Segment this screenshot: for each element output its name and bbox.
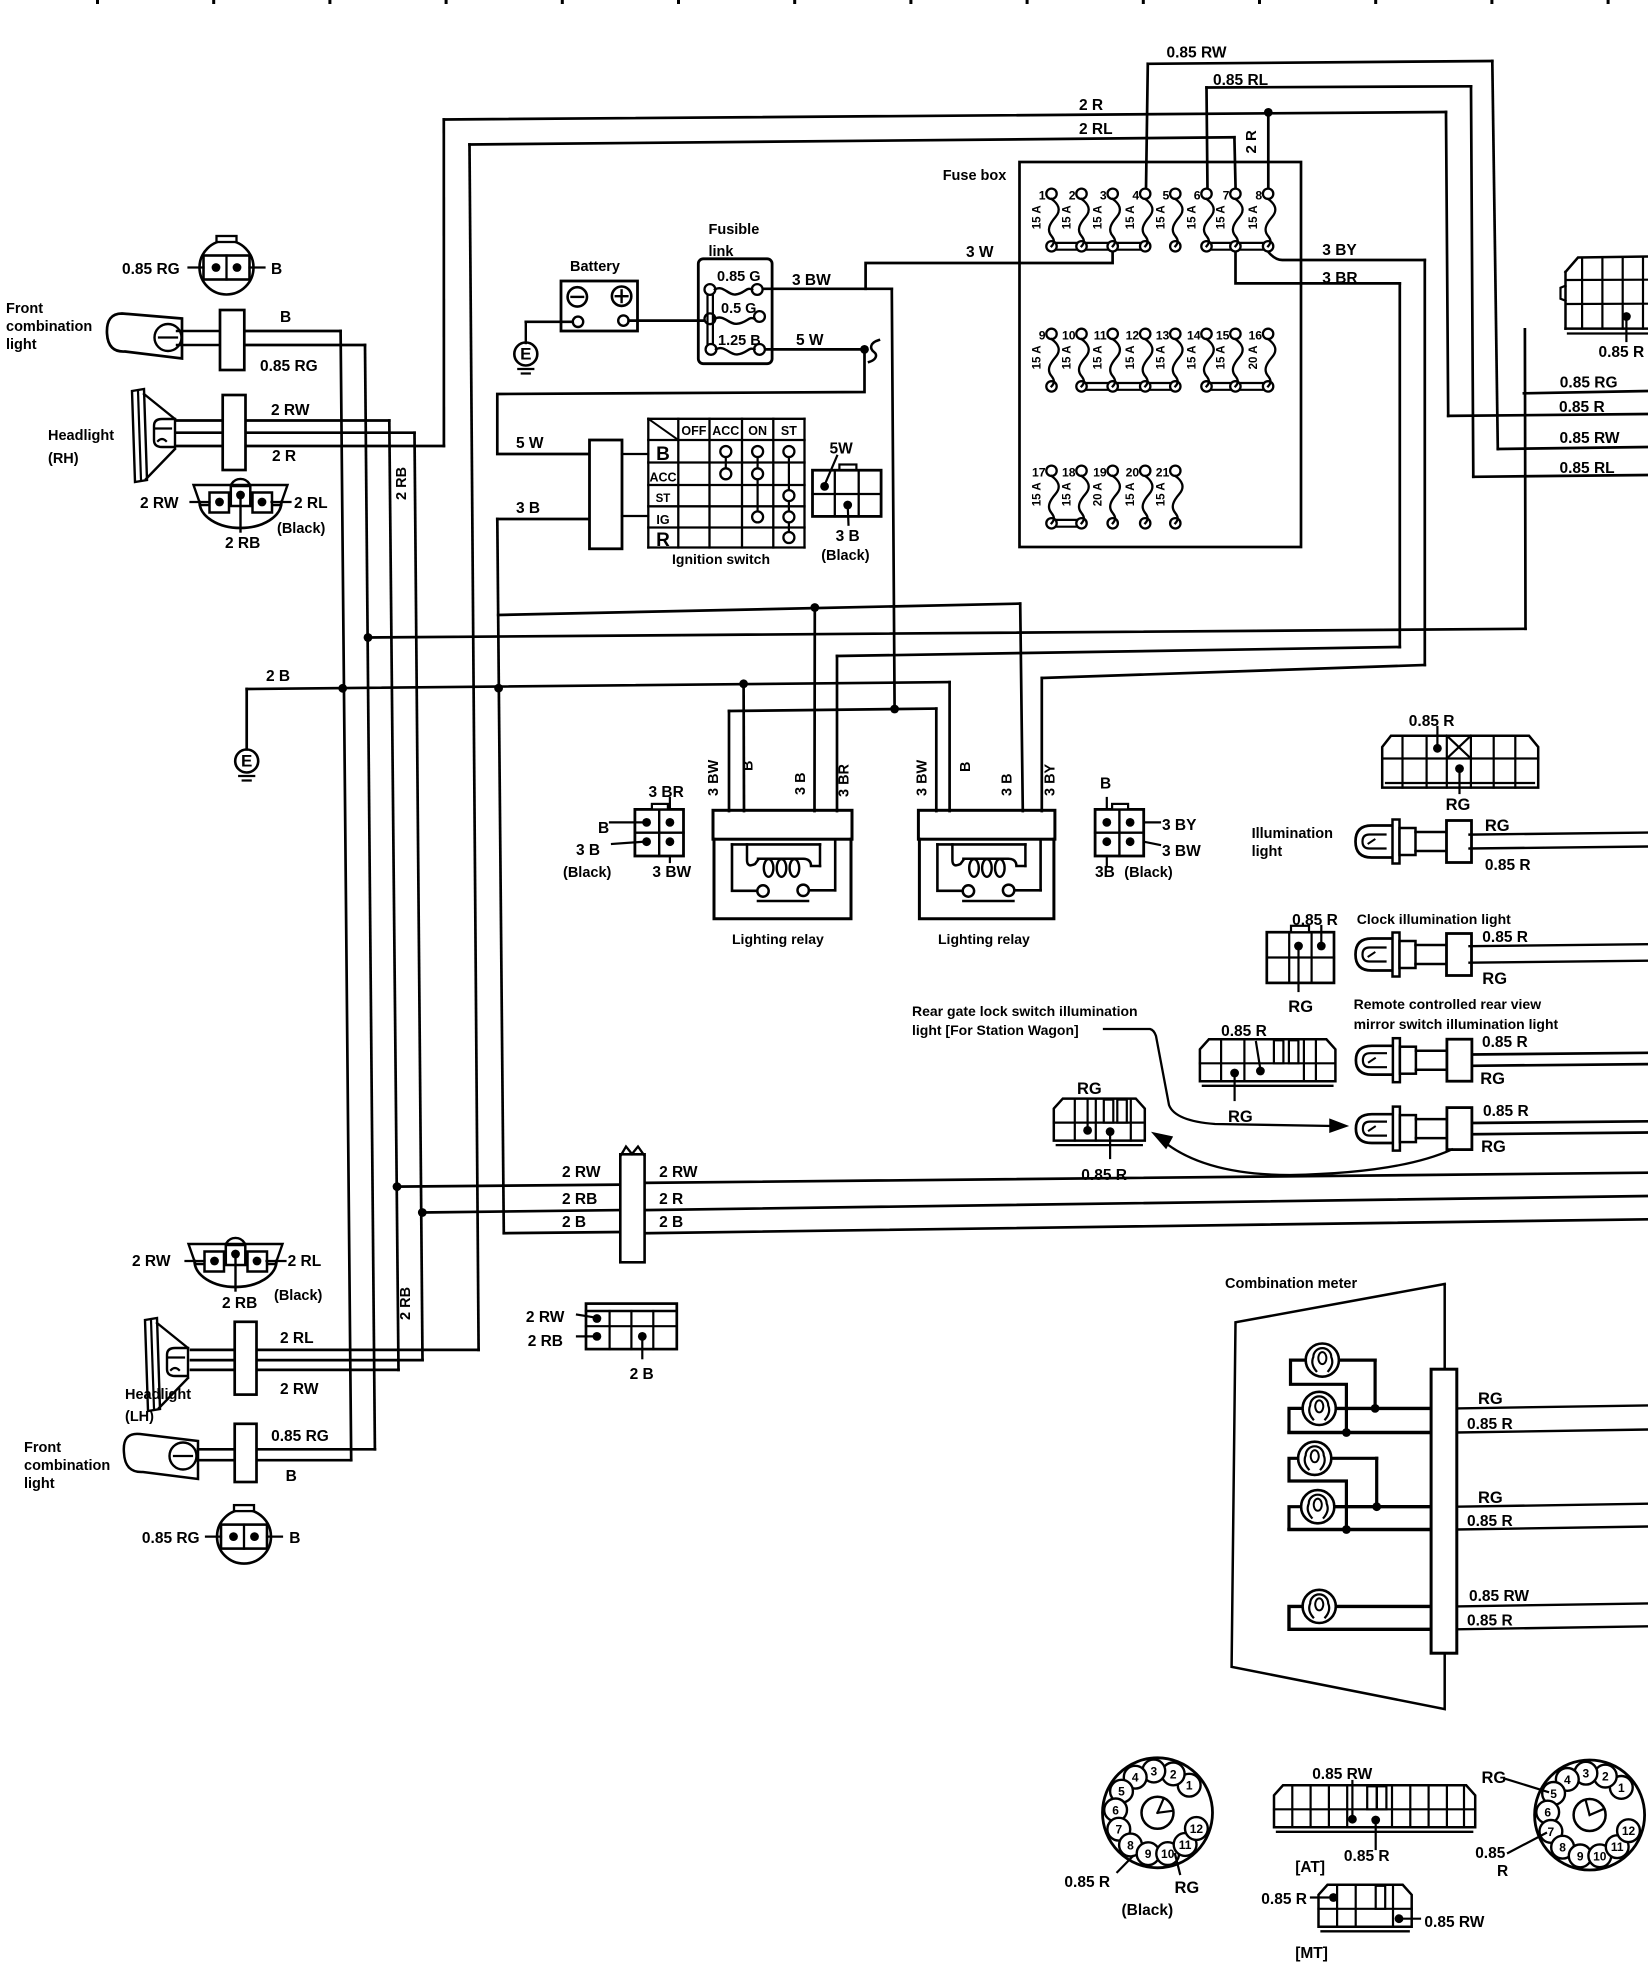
svg-text:RG: RG [1478, 1390, 1503, 1408]
headlight LH [145, 1318, 188, 1411]
label 0.85 RW (AT) [1312, 1766, 1372, 1783]
svg-text:light: light [24, 1476, 55, 1492]
connector clock illumination 6-pin [1267, 926, 1334, 991]
label 3 BW [792, 272, 831, 289]
ignition switch connector [590, 440, 623, 549]
svg-text:15 A: 15 A [1187, 345, 1199, 369]
svg-text:0.85 R: 0.85 R [1467, 1513, 1513, 1530]
svg-text:15 A: 15 A [1125, 345, 1137, 369]
svg-text:10: 10 [1593, 1849, 1607, 1863]
wire 0.85RG long horizontal [368, 629, 1526, 638]
svg-text:0.85 RG: 0.85 RG [271, 1428, 329, 1445]
svg-text:B: B [656, 444, 670, 465]
svg-text:3 BW: 3 BW [652, 864, 691, 881]
remote mirror bulb 2 [1356, 1107, 1472, 1151]
svg-text:Headlight: Headlight [48, 428, 114, 444]
svg-text:3 BR: 3 BR [1322, 270, 1357, 287]
illumination light label [1252, 826, 1333, 860]
svg-text:15 A: 15 A [1187, 205, 1199, 229]
wire 2B to relay1 pin [742, 684, 745, 811]
svg-text:4: 4 [1132, 1771, 1139, 1785]
svg-text:10: 10 [1062, 328, 1076, 342]
svg-text:0.85 RW: 0.85 RW [1560, 430, 1620, 447]
ground E (battery) [514, 322, 537, 374]
svg-text:15 A: 15 A [1155, 205, 1167, 229]
svg-text:0.85 RW: 0.85 RW [1312, 1766, 1372, 1783]
bundle labels left [562, 1164, 601, 1231]
clock illumination bulb [1356, 933, 1472, 977]
bundle labels right [659, 1164, 698, 1231]
svg-text:18: 18 [1062, 465, 1076, 479]
svg-text:0.5 G: 0.5 G [721, 301, 756, 317]
label 0.85 R (AT) [1344, 1848, 1390, 1865]
svg-text:2 R: 2 R [1243, 130, 1260, 154]
svg-text:15 A: 15 A [1093, 345, 1105, 369]
svg-text:Ignition switch: Ignition switch [672, 551, 770, 567]
svg-text:light: light [6, 337, 37, 353]
svg-text:Fusible: Fusible [709, 222, 760, 238]
svg-text:19: 19 [1093, 465, 1107, 479]
leads round connector left [1117, 1854, 1180, 1874]
label 2 R top [1079, 97, 1103, 114]
combination meter label [1225, 1276, 1357, 1292]
svg-text:light: light [1252, 844, 1283, 860]
svg-text:combination: combination [24, 1458, 110, 1474]
label 5W [830, 441, 854, 458]
label 0.85 R (MT) [1261, 1891, 1307, 1908]
svg-text:8: 8 [1559, 1841, 1566, 1855]
svg-text:0.85 R: 0.85 R [1467, 1416, 1513, 1433]
svg-text:7: 7 [1223, 188, 1230, 202]
labels mirror2 wires [1481, 1103, 1529, 1156]
svg-text:(RH): (RH) [48, 451, 79, 467]
wire 2RL horizontal top [470, 137, 1235, 144]
labels round connector right [1475, 1769, 1508, 1880]
svg-text:B: B [598, 820, 609, 837]
ignition switch label [672, 551, 770, 567]
wire 3BR to fuse 7 [1236, 252, 1400, 283]
ignition switch column headers [681, 424, 797, 438]
ignition switch row labels [649, 444, 676, 551]
svg-text:0.85 RL: 0.85 RL [1560, 460, 1615, 477]
fuse box outline [1020, 162, 1302, 547]
svg-text:2: 2 [1069, 188, 1076, 202]
wire 0.85R to right edge [1448, 414, 1648, 416]
wire 2RW headlight RH [176, 419, 389, 422]
wire 0.85RL horizontal top [1207, 86, 1472, 87]
svg-text:2 RW: 2 RW [140, 495, 179, 512]
labels round connector left [1064, 1874, 1199, 1919]
wire 0.85RW drop to fuse 4 [1146, 64, 1148, 189]
svg-text:9: 9 [1039, 328, 1046, 342]
svg-text:5: 5 [1550, 1787, 1557, 1801]
connector hook symbol on 5W [869, 340, 879, 362]
svg-text:(Black): (Black) [563, 865, 612, 881]
wire 0.85RL to right edge [1473, 475, 1648, 477]
svg-text:2: 2 [1170, 1767, 1177, 1781]
front comb LH labels [24, 1440, 110, 1492]
svg-text:2 RB: 2 RB [398, 1287, 414, 1320]
labels round connector RH [122, 261, 282, 278]
label 0.85 R (rear gate conn) [1081, 1167, 1127, 1184]
svg-text:20 A: 20 A [1248, 345, 1260, 369]
wire 2R headlight RH mid [176, 431, 415, 434]
connector round 12-pin (AT/MT) [1535, 1760, 1645, 1870]
wire 2RL headlight LH [191, 1349, 479, 1352]
wire 3B to relay1 pin [813, 608, 816, 812]
labels clock wires [1482, 929, 1528, 988]
wire 0.85RG to right edge [1524, 391, 1648, 393]
connector ignition 6-pin (Black) [813, 456, 882, 525]
label 3 B [836, 528, 860, 545]
remote mirror label [1354, 996, 1559, 1032]
svg-text:17: 17 [1032, 465, 1046, 479]
svg-text:15 A: 15 A [1062, 205, 1074, 229]
svg-text:0.85 R: 0.85 R [1482, 929, 1528, 946]
svg-text:ACC: ACC [649, 471, 676, 485]
svg-text:ACC: ACC [712, 424, 739, 438]
svg-text:15 A: 15 A [1125, 205, 1137, 229]
svg-text:15 A: 15 A [1032, 205, 1044, 229]
label 3 BY [1322, 242, 1357, 259]
svg-text:9: 9 [1145, 1847, 1152, 1861]
label 2RB rotated top [394, 467, 410, 500]
svg-text:9: 9 [1577, 1849, 1584, 1863]
svg-text:2 B: 2 B [630, 1366, 654, 1383]
svg-text:3 BY: 3 BY [1042, 763, 1058, 796]
connector rear gate lock switch [1054, 1099, 1145, 1158]
wire B front comb LH [198, 1459, 351, 1462]
svg-text:7: 7 [1115, 1823, 1122, 1837]
svg-text:light [For Station Wagon]: light [For Station Wagon] [912, 1022, 1079, 1038]
front comb LH connector [235, 1424, 257, 1482]
svg-text:13: 13 [1156, 328, 1170, 342]
wire 2RW bundle right [645, 1173, 1648, 1183]
svg-text:1: 1 [1186, 1779, 1193, 1793]
svg-text:0.85 R: 0.85 R [1292, 912, 1338, 929]
wire 2RL drop to fuse 7 [1234, 137, 1235, 189]
combination meter bulb 4 [1301, 1490, 1334, 1523]
wire 2R horizontal top [444, 112, 1446, 120]
label 0.85 G [717, 269, 761, 285]
svg-text:Front: Front [24, 1440, 61, 1456]
label 0.85 R (illum conn) [1409, 713, 1455, 730]
svg-text:3 W: 3 W [966, 244, 994, 261]
label (Black) ignition connector [821, 548, 870, 564]
label 3 W [966, 244, 994, 261]
node 2B relay1 junction [739, 679, 748, 688]
ground E (2B line) [235, 750, 258, 781]
rear gate label [912, 1003, 1138, 1038]
svg-text:2 RW: 2 RW [132, 1253, 171, 1270]
svg-text:6: 6 [1194, 188, 1201, 202]
label 0.85 RG (LH) [271, 1428, 329, 1445]
label 0.85 R (clock conn) [1292, 912, 1338, 929]
headlight RH label [48, 428, 114, 467]
svg-text:12: 12 [1622, 1824, 1636, 1838]
svg-text:0.85 G: 0.85 G [717, 269, 761, 285]
fuses 17-21 [1032, 465, 1183, 528]
combination meter body [1232, 1284, 1445, 1709]
svg-text:15 A: 15 A [1215, 205, 1227, 229]
label 2 RL top [1079, 121, 1113, 138]
svg-text:1: 1 [1618, 1781, 1625, 1795]
wire 3BY riser to fuse box [1423, 260, 1426, 665]
wire connector to table row B [622, 453, 648, 455]
wire 3BR horizontal run [837, 647, 1400, 656]
lighting relay 2 [918, 810, 1055, 918]
svg-text:Rear gate lock switch illumina: Rear gate lock switch illumination [912, 1003, 1138, 1019]
wire 3BW from fusible link [762, 287, 892, 290]
svg-text:10: 10 [1161, 1847, 1175, 1861]
svg-text:7: 7 [1548, 1825, 1555, 1839]
svg-text:(LH): (LH) [125, 1409, 154, 1425]
ignition switch table grid [648, 419, 804, 548]
fusible link [698, 259, 772, 364]
svg-text:5W: 5W [830, 441, 854, 458]
svg-text:R: R [656, 530, 670, 551]
svg-text:4: 4 [1132, 188, 1139, 202]
svg-text:0.85 RG: 0.85 RG [122, 261, 180, 278]
leads round connector right [1506, 1779, 1548, 1853]
node 2B - 3B crossing junction [494, 684, 503, 693]
svg-text:3 B: 3 B [999, 773, 1015, 796]
svg-text:1.25 B: 1.25 B [718, 333, 761, 349]
wire battery positive to fusible link [629, 319, 707, 322]
svg-text:0.85 RW: 0.85 RW [1424, 1914, 1484, 1931]
lighting relay 1 [713, 810, 852, 918]
svg-text:0.85 R: 0.85 R [1599, 344, 1645, 361]
svg-text:6: 6 [1112, 1803, 1119, 1817]
wire 2RL vertical left drop [470, 145, 479, 1350]
svg-text:0.85 RG: 0.85 RG [142, 1530, 200, 1547]
wire 0.85RL right drop [1471, 86, 1473, 477]
svg-text:15 A: 15 A [1248, 205, 1260, 229]
combination meter connector bar [1431, 1369, 1457, 1653]
label 2 RL (LH) [280, 1330, 314, 1347]
combination meter bulb 2 [1303, 1392, 1336, 1425]
wire 2R headlight RH lower [176, 445, 444, 448]
svg-text:(Black): (Black) [277, 521, 326, 537]
label B (front comb RH) [280, 309, 291, 326]
svg-text:0.85 R: 0.85 R [1467, 1613, 1513, 1630]
svg-text:15 A: 15 A [1062, 482, 1074, 506]
wire 0.85RL drop to fuse 6 [1207, 88, 1208, 191]
svg-text:Battery: Battery [570, 259, 620, 275]
wire B vertical (front comb RH to LH) [341, 331, 352, 1460]
svg-text:3 BR: 3 BR [649, 784, 684, 801]
svg-text:[AT]: [AT] [1295, 1859, 1325, 1876]
svg-text:3: 3 [1150, 1765, 1157, 1779]
svg-text:3 B: 3 B [576, 842, 600, 859]
svg-text:E: E [520, 345, 531, 364]
connector instrument harness (top right) [1561, 257, 1648, 342]
svg-text:Illumination: Illumination [1252, 826, 1333, 842]
combination meter bulb 5 [1303, 1590, 1336, 1623]
wire 0.85RG front comb LH [198, 1448, 375, 1451]
svg-text:2 RW: 2 RW [280, 1381, 319, 1398]
wire 2RW vertical left [389, 421, 398, 1370]
wire 2R vertical left drop to headlight RH lower line [442, 120, 445, 447]
clock bulb wires [1470, 944, 1648, 963]
wire 3B horizontal run [498, 604, 1020, 615]
svg-text:15 A: 15 A [1155, 345, 1167, 369]
svg-text:0.85 RG: 0.85 RG [1560, 375, 1618, 392]
svg-text:5: 5 [1118, 1785, 1125, 1799]
wire 2R right drop [1446, 112, 1448, 416]
node 2R fuse-8 junction [1264, 108, 1273, 117]
svg-text:0.85 R: 0.85 R [1064, 1874, 1110, 1891]
lighting relay 1 label [732, 931, 824, 947]
svg-text:2 B: 2 B [266, 668, 290, 685]
label 0.85 RG (front comb RH) [260, 358, 318, 375]
wire 0.85RW to right edge [1498, 447, 1648, 449]
svg-text:B: B [280, 309, 291, 326]
svg-text:mirror switch illumination lig: mirror switch illumination light [1354, 1016, 1559, 1032]
svg-text:Combination meter: Combination meter [1225, 1276, 1357, 1292]
node 0.85RG junction [364, 633, 373, 642]
svg-text:14: 14 [1187, 328, 1201, 342]
labels mirror1 wires [1480, 1034, 1527, 1088]
label 0.85 RL top [1213, 72, 1268, 89]
labels relay1 connector [563, 784, 692, 881]
front combination light LH lamp [124, 1434, 198, 1479]
ignition switch contact circles [720, 446, 794, 543]
svg-text:0.85 R: 0.85 R [1559, 399, 1605, 416]
label 3 B (ignition feed) [516, 500, 540, 517]
svg-text:11: 11 [1179, 1838, 1192, 1852]
node 3B relay1 junction [810, 603, 819, 612]
connector headlight RH 3-pin [191, 479, 291, 532]
svg-text:15 A: 15 A [1062, 345, 1074, 369]
svg-text:RG: RG [1485, 817, 1510, 835]
headlight RH [132, 389, 175, 482]
svg-text:3 B: 3 B [836, 528, 860, 545]
wire 3B drop to relay2 pin [1020, 604, 1023, 811]
svg-text:0.85 RG: 0.85 RG [260, 358, 318, 375]
node 2RW bundle junction [393, 1182, 402, 1191]
label [AT] [1295, 1859, 1325, 1876]
svg-text:Front: Front [6, 301, 43, 317]
label 0.85 R (mid conn) [1221, 1023, 1267, 1040]
svg-text:2 B: 2 B [659, 1214, 683, 1231]
svg-text:RG: RG [1481, 1138, 1506, 1156]
svg-text:12: 12 [1126, 328, 1140, 342]
svg-text:0.85 R: 0.85 R [1344, 1848, 1390, 1865]
wire 2B to relay2 pin [948, 682, 951, 811]
svg-text:OFF: OFF [681, 424, 706, 438]
pointer curve to rear gate connector [1153, 1133, 1452, 1175]
svg-text:B: B [271, 261, 282, 278]
connector illumination feed (6x2 with X) [1382, 727, 1538, 793]
svg-text:3B: 3B [1095, 864, 1115, 881]
svg-text:link: link [709, 244, 735, 260]
svg-text:3 BW: 3 BW [706, 759, 722, 796]
label B (LH) [286, 1468, 297, 1485]
svg-text:RG: RG [1478, 1489, 1503, 1507]
svg-text:3 B: 3 B [516, 500, 540, 517]
svg-text:3 BR: 3 BR [837, 763, 853, 797]
svg-text:RG: RG [1446, 796, 1471, 814]
svg-text:ON: ON [748, 424, 767, 438]
connector round 12-pin (Black) [1103, 1758, 1213, 1868]
label 0.85 RW top [1167, 45, 1227, 62]
svg-text:E: E [241, 752, 252, 771]
combination meter bulb 1 [1306, 1344, 1339, 1377]
wire 0.85RW horizontal top [1148, 61, 1493, 64]
svg-text:combination: combination [6, 319, 92, 335]
svg-text:2 B: 2 B [562, 1214, 586, 1231]
connector headlight LH 3-pin [186, 1238, 286, 1291]
front comb RH lamp leads [177, 331, 244, 345]
label 5 W [796, 332, 824, 349]
svg-text:15 A: 15 A [1093, 205, 1105, 229]
wire 3W [866, 252, 1113, 289]
svg-text:11: 11 [1094, 328, 1107, 342]
wire 3BR riser to fuse box [1398, 283, 1401, 647]
wire 5W from fusible link [761, 348, 865, 351]
wire 2RW bundle left [397, 1185, 620, 1187]
svg-text:2 R: 2 R [1079, 97, 1103, 114]
wire 3B long vertical [497, 519, 504, 1233]
svg-text:Lighting relay: Lighting relay [938, 931, 1030, 947]
svg-text:6: 6 [1544, 1806, 1551, 1820]
node 5W junction [860, 345, 869, 354]
illumination light bulb [1356, 820, 1472, 864]
fuses 9-16 [1032, 328, 1276, 391]
front combination light RH lamp [107, 314, 182, 359]
svg-text:RG: RG [1175, 1879, 1200, 1897]
fuses 1-8 [1032, 188, 1276, 251]
svg-text:2 R: 2 R [659, 1191, 683, 1208]
svg-text:RG: RG [1288, 998, 1313, 1016]
wire connector to table row IG [622, 515, 648, 517]
connector rear gate illumination feed [1200, 1039, 1336, 1100]
svg-text:0.85 RW: 0.85 RW [1167, 45, 1227, 62]
svg-text:12: 12 [1190, 1822, 1204, 1836]
label 2R rotated [1243, 130, 1260, 154]
svg-text:2 RW: 2 RW [526, 1309, 565, 1326]
svg-text:0.85 R: 0.85 R [1081, 1167, 1127, 1184]
scan edge tick marks [96, 0, 1610, 4]
svg-text:3: 3 [1583, 1767, 1590, 1781]
wire 2RB bundle left [422, 1210, 620, 1212]
combination meter internal wiring [1289, 1360, 1431, 1629]
wire battery negative to ground [526, 320, 571, 323]
inline connector on bundle [620, 1147, 644, 1263]
wire 2B ground stem [245, 689, 248, 749]
svg-text:2: 2 [1602, 1770, 1609, 1784]
fusible link label [709, 222, 760, 260]
svg-text:ST: ST [781, 424, 797, 438]
svg-text:0.85 R: 0.85 R [1483, 1103, 1529, 1120]
svg-text:16: 16 [1249, 328, 1263, 342]
svg-text:3 B: 3 B [793, 772, 809, 795]
svg-text:8: 8 [1127, 1839, 1134, 1853]
wire 0.85RG riser right [1524, 329, 1527, 629]
front combination light RH label [6, 301, 92, 353]
svg-text:IG: IG [656, 513, 669, 527]
svg-text:20 A: 20 A [1093, 482, 1105, 506]
svg-text:11: 11 [1611, 1840, 1624, 1854]
svg-text:5: 5 [1163, 188, 1170, 202]
svg-text:15: 15 [1216, 328, 1230, 342]
wire 0.85RW right drop [1492, 61, 1498, 449]
relay1 wire labels rotated [706, 759, 853, 797]
svg-text:4: 4 [1564, 1773, 1571, 1787]
meter output wires [1457, 1405, 1648, 1629]
svg-text:RG: RG [1482, 1769, 1507, 1787]
